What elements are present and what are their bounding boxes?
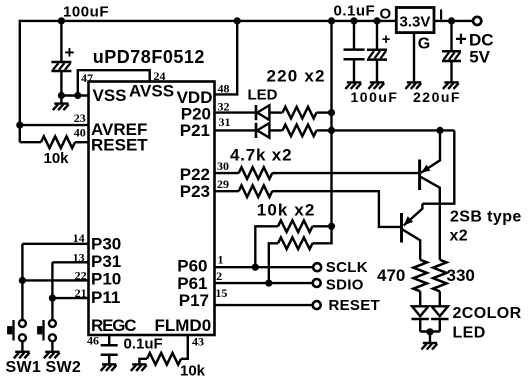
svg-text:43: 43: [192, 334, 204, 348]
svg-text:P21: P21: [180, 121, 210, 140]
wire emitter bus down: [422, 130, 454, 203]
svg-text:100uF: 100uF: [63, 4, 109, 21]
wire R9 to D4: [439, 291, 441, 306]
transistor Q2 emitter: [404, 204, 423, 226]
wire R7 right lead: [313, 242, 333, 244]
svg-text:10k x2: 10k x2: [257, 201, 316, 220]
svg-text:P60: P60: [177, 257, 207, 276]
svg-text:SW2: SW2: [46, 359, 82, 376]
wire VSS pin to junction: [61, 94, 89, 96]
ground below U2 G: [405, 82, 421, 89]
LED D2 cathode bar: [255, 123, 258, 138]
svg-text:22: 22: [75, 268, 87, 282]
resistor R9 330: [433, 260, 447, 292]
wire VDD pin 48: [214, 21, 238, 95]
svg-text:SCLK: SCLK: [326, 259, 368, 276]
node junction P11-SW2: [49, 295, 56, 302]
ground below SW2: [44, 352, 60, 359]
svg-text:0.1uF: 0.1uF: [124, 336, 163, 353]
wire D4 stub: [439, 319, 441, 332]
ground below SW1: [14, 352, 30, 359]
svg-text:2COLOR: 2COLOR: [453, 305, 522, 322]
svg-text:23: 23: [74, 111, 86, 125]
svg-text:32: 32: [218, 100, 230, 114]
ground below C2: [345, 82, 361, 89]
svg-text:FLMD0: FLMD0: [155, 316, 212, 335]
svg-text:VSS: VSS: [93, 86, 127, 105]
wire R8 to D3: [419, 291, 421, 306]
op-amp U1 uPD78F0512 box: [89, 82, 215, 336]
wire C3 top lead: [376, 21, 378, 50]
wire FLMD0 pin 43 stub: [181, 335, 188, 359]
wire D2 to R3: [269, 129, 282, 131]
svg-text:30: 30: [217, 159, 229, 173]
svg-text:P31: P31: [91, 252, 121, 271]
wire VSS-AVSS jumper: [78, 70, 150, 95]
svg-text:14: 14: [73, 231, 85, 245]
wire P21 row to emitters: [332, 129, 455, 131]
wire left drop to AVREF/RESET: [19, 20, 21, 143]
wire U2 input to DC terminal: [434, 20, 472, 22]
wire LED ground stub: [429, 332, 431, 342]
svg-text:15: 15: [215, 286, 227, 300]
svg-text:P30: P30: [91, 235, 121, 254]
transistor Q2 collector: [403, 230, 421, 260]
ground below C5: [101, 364, 117, 371]
svg-text:4.7k x2: 4.7k x2: [230, 146, 292, 165]
wire P30 pin 14: [22, 243, 89, 245]
svg-text:2: 2: [216, 269, 222, 283]
ground below C4: [443, 82, 459, 89]
wire C4 top lead: [450, 21, 452, 51]
wire P31 pin 13: [52, 261, 89, 263]
node junction SDIO pullup: [265, 280, 272, 287]
svg-text:+: +: [455, 29, 467, 51]
wire SW1 vertical: [21, 244, 23, 321]
transistor Q1 emitter arrow: [421, 165, 431, 173]
svg-text:40: 40: [74, 125, 86, 139]
node junction top rail at VDD: [234, 17, 241, 24]
svg-text:220 x2: 220 x2: [267, 67, 326, 86]
svg-text:AVSS: AVSS: [129, 82, 174, 101]
svg-text:+: +: [65, 43, 75, 62]
svg-text:0.1uF: 0.1uF: [334, 3, 376, 20]
svg-text:29: 29: [217, 177, 229, 191]
wire R7 left leg: [269, 243, 278, 283]
svg-text:RESET: RESET: [91, 136, 148, 155]
resistor R4 4.7k: [239, 167, 273, 179]
node junction R3-rail: [328, 127, 335, 134]
wire R6 left leg: [255, 226, 278, 267]
svg-text:330: 330: [447, 266, 475, 285]
wire VSS ground stub: [60, 96, 62, 103]
wire R2 to rail: [317, 111, 332, 113]
wire 3.3V top rail: [20, 20, 397, 22]
svg-text:13: 13: [73, 251, 85, 265]
node VSS-AVSS junction: [74, 92, 81, 99]
ground below 2COLOR LED: [421, 343, 437, 350]
transistor Q1 emitter: [421, 130, 440, 172]
wire SW1 ground stub: [21, 341, 23, 351]
wire R3 to rail: [317, 129, 332, 131]
svg-text:SDIO: SDIO: [326, 276, 364, 293]
node junction top rail at C2: [350, 17, 357, 24]
capacitor C3 100uF: [367, 50, 387, 60]
wire R5 to Q2 base: [272, 191, 401, 227]
ground below C3: [368, 82, 384, 89]
LED D1 cathode bar: [255, 105, 258, 120]
terminal RESET circle: [313, 301, 321, 309]
svg-text:470: 470: [377, 266, 405, 285]
LED D3 cathode bar: [412, 318, 429, 321]
svg-text:x2: x2: [450, 228, 469, 245]
resistor R6 10k pullup SCLK: [278, 221, 313, 233]
capacitor C5 0.1uF REGC: [101, 345, 118, 355]
node junction top rail at C3: [373, 17, 380, 24]
transistor Q2 emitter arrow: [404, 216, 413, 225]
resistor R3 220: [283, 125, 317, 137]
wire P11 pin 21: [52, 297, 89, 299]
svg-text:220uF: 220uF: [413, 89, 461, 105]
resistor R5 4.7k: [239, 185, 273, 197]
ground below R10: [131, 364, 147, 371]
wire SW2 ground stub: [51, 341, 53, 351]
svg-text:P10: P10: [91, 270, 121, 289]
svg-text:24: 24: [154, 69, 166, 83]
transistor Q1 base bar: [418, 160, 421, 191]
svg-text:2SB type: 2SB type: [450, 209, 522, 226]
capacitor C4 220uF: [442, 51, 461, 61]
svg-text:LED: LED: [453, 325, 486, 342]
wire R4 to Q1 base: [272, 172, 418, 174]
node junction top rail at C1: [58, 17, 65, 24]
wire SW2 vertical: [51, 262, 53, 320]
resistor R8 470: [413, 260, 427, 292]
switch SW1: [7, 320, 26, 341]
node junction P10-SW1: [19, 277, 26, 284]
node junction LED common: [426, 328, 433, 335]
wire AVREF pin 23: [20, 124, 90, 126]
resistor R2 220: [283, 107, 317, 119]
wire P20 pin 32: [214, 111, 257, 113]
svg-text:1: 1: [218, 253, 224, 267]
resistor R10 10k FLMD0: [147, 353, 181, 365]
wire R10 left lead: [139, 359, 147, 364]
wire D3 stub: [419, 319, 421, 332]
node junction C4-input: [448, 17, 455, 24]
switch SW2: [37, 320, 56, 341]
node junction SCLK pullup: [252, 264, 259, 271]
wire C1 bottom lead: [60, 71, 62, 96]
LED D2 triangle: [257, 123, 269, 138]
node junction top rail at LED rail: [328, 17, 335, 24]
wire P60 pin 1 SCLK: [214, 266, 313, 268]
svg-text:RESET: RESET: [329, 297, 381, 314]
wire LED common: [420, 330, 440, 332]
resistor R1 10k RESET pullup: [41, 136, 75, 148]
svg-text:P17: P17: [179, 291, 209, 310]
wire C1 top lead: [60, 21, 62, 62]
svg-text:10k: 10k: [180, 363, 206, 379]
terminal SCLK circle: [313, 263, 321, 271]
wire REGC pin 46 stub: [108, 335, 110, 345]
wire C5 ground stub: [108, 355, 110, 364]
svg-text:O: O: [380, 5, 392, 22]
wire P17 pin 15 RESET: [214, 304, 312, 306]
terminal SDIO circle: [313, 279, 321, 287]
wire U2 ground leg: [413, 33, 415, 82]
svg-text:3.3V: 3.3V: [400, 14, 431, 31]
node junction R2-rail: [328, 109, 335, 116]
svg-text:SW1: SW1: [6, 359, 42, 376]
capacitor C2 0.1uF: [344, 50, 365, 60]
svg-text:47: 47: [81, 71, 93, 85]
resistor R7 10k pullup SDIO: [278, 238, 313, 250]
svg-text:31: 31: [219, 115, 231, 129]
terminal DC input circle: [473, 17, 481, 25]
svg-text:P11: P11: [91, 288, 120, 307]
svg-text:P23: P23: [180, 182, 210, 201]
svg-text:21: 21: [75, 286, 87, 300]
LED D4 cathode bar: [431, 318, 448, 321]
wire RESET lead right: [75, 141, 90, 143]
svg-text:100uF: 100uF: [351, 89, 399, 105]
node AVREF junction: [16, 122, 23, 129]
node junction R6-rail: [328, 223, 335, 230]
wire C2 ground stub: [353, 59, 355, 81]
wire P10 pin 22: [22, 279, 89, 281]
svg-text:46: 46: [87, 334, 99, 348]
svg-text:LED: LED: [248, 87, 278, 104]
transistor Q2 base bar: [400, 213, 403, 243]
LED D3 triangle: [412, 306, 428, 316]
svg-text:10k: 10k: [44, 150, 70, 167]
node VSS junction: [58, 92, 65, 99]
svg-text:+: +: [382, 31, 391, 48]
regulator U2 3.3V box: [396, 8, 434, 33]
wire P22 pin 30 lead: [214, 172, 239, 174]
svg-text:5V: 5V: [469, 48, 490, 67]
svg-text:uPD78F0512: uPD78F0512: [93, 47, 205, 67]
wire P61 pin 2 SDIO: [214, 282, 312, 284]
wire RESET lead left: [20, 141, 41, 143]
wire 3.3V vertical rail: [330, 21, 332, 243]
wire C4 ground stub: [450, 61, 452, 82]
wire R6 right lead: [313, 225, 332, 227]
wire C3 ground stub: [376, 60, 378, 82]
wire D1 to R2: [269, 111, 282, 113]
transistor Q1 collector: [421, 177, 440, 260]
svg-text:G: G: [418, 36, 430, 53]
ground below C1: [53, 104, 69, 111]
svg-text:REGC: REGC: [91, 316, 136, 335]
svg-text:48: 48: [218, 82, 230, 96]
wire C2 top lead: [353, 21, 355, 49]
LED D4 triangle: [432, 306, 448, 316]
capacitor C1 100uF electrolytic: [51, 62, 71, 71]
node junction Q1 emitter: [436, 127, 443, 134]
wire P21 pin 31: [214, 129, 257, 131]
LED D1 triangle: [257, 105, 269, 120]
wire P23 pin 29 lead: [214, 190, 239, 192]
